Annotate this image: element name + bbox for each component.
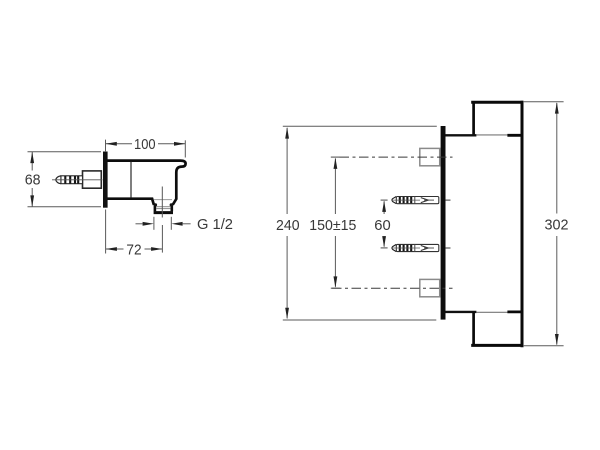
threaded rod outline — [61, 176, 83, 184]
dimension 60 ticks — [381, 199, 388, 201]
dimension G 1/2 line left — [136, 223, 143, 225]
dimension 68 extension lines — [28, 151, 102, 153]
dimension 240 extension lines — [283, 125, 437, 127]
wall plate (section) — [441, 126, 446, 320]
dimension G 1/2 line right — [183, 223, 191, 225]
svg-text:302: 302 — [545, 217, 569, 234]
svg-text:100: 100 — [134, 136, 156, 153]
wall anchor bottom — [392, 244, 451, 251]
dimension 302 line — [556, 103, 558, 214]
nipple tip — [56, 176, 61, 184]
nipple centerline — [52, 179, 103, 181]
svg-text:240: 240 — [276, 217, 300, 234]
wall plate (side view) — [103, 152, 108, 208]
outlet cup — [155, 204, 172, 211]
dimension 100 arrows — [106, 142, 117, 146]
dimension 72 extension lines — [105, 210, 107, 254]
screw bottom centerline — [332, 287, 453, 289]
dimension 302 extension lines — [523, 101, 564, 103]
wall anchor top — [392, 197, 451, 204]
mounting screw top — [420, 148, 440, 165]
dimension 240 arrows — [285, 127, 289, 138]
dimension 240 line — [286, 128, 288, 214]
body top block top edge — [471, 101, 523, 104]
svg-text:68: 68 — [25, 171, 41, 188]
dimension 72 arrows — [106, 247, 117, 251]
dimension 150±15 arrows — [334, 158, 338, 169]
body bottom block bottom edge — [471, 344, 523, 347]
dimension 150±15 line — [334, 159, 336, 215]
spout body bottom edge — [108, 199, 154, 205]
dimension 150±15 ticks — [331, 156, 340, 158]
spout body top edge and lip — [108, 161, 186, 205]
dimension 60 arrows — [382, 201, 386, 212]
body mid top edge — [446, 134, 477, 136]
screw top centerline — [340, 156, 453, 158]
dimension 68 line — [31, 152, 33, 171]
dimension 72 line — [106, 248, 124, 250]
body mid top inner segment — [507, 134, 523, 137]
svg-text:150±15: 150±15 — [309, 217, 356, 234]
mounting screw bottom — [420, 279, 440, 296]
body right edge — [521, 101, 524, 348]
body mid bottom edge — [446, 311, 477, 313]
svg-text:72: 72 — [126, 242, 141, 259]
nipple collar — [83, 171, 102, 188]
dimension 302 arrows — [555, 102, 559, 113]
dimension G 1/2 extension lines — [153, 217, 155, 230]
dimension 60 line — [383, 201, 385, 214]
body top block left edge — [472, 102, 475, 135]
body joint line — [130, 162, 132, 198]
outlet inner lines — [154, 199, 172, 201]
outlet centerline — [161, 187, 163, 218]
svg-text:G 1/2: G 1/2 — [197, 217, 233, 233]
thread stripes — [65, 176, 78, 184]
body mid bottom inner segment — [507, 310, 523, 313]
body bottom block left edge — [472, 312, 475, 345]
svg-text:60: 60 — [374, 217, 390, 234]
dimension 100 extension lines — [105, 140, 107, 152]
dimension 68 arrows — [30, 152, 34, 163]
dimension 100 line — [106, 143, 133, 145]
